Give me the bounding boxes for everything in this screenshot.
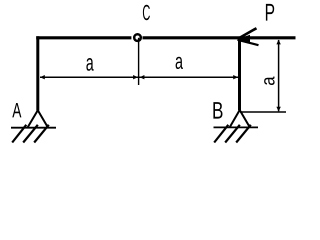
- force P arrowhead fill: [237, 35, 250, 44]
- support B hatch 2: [225, 125, 240, 143]
- support A hatch 2: [23, 125, 38, 143]
- support B hatch 1: [214, 125, 228, 143]
- dim arrow right of C extension: [140, 75, 145, 79]
- support B hatch 3: [236, 125, 251, 143]
- dim arrow up at beam: [276, 40, 280, 45]
- force P lower barb: [238, 40, 259, 45]
- node C label: [143, 5, 150, 20]
- support A ground line: [11, 127, 56, 129]
- dim arrow at right column: [233, 75, 238, 79]
- left column member: [36, 36, 39, 110]
- wire bottom extension line for vertical dimension: [240, 111, 286, 113]
- support A hatch 3: [34, 125, 49, 143]
- dim arrow left of C extension: [133, 75, 138, 79]
- dim label a right span: [176, 57, 183, 69]
- node B label: [213, 102, 222, 118]
- white gap in beam at hinge: [131, 35, 142, 40]
- dim label a vertical (rotated): [264, 76, 274, 85]
- support A hatch 1: [12, 125, 26, 143]
- beam top horizontal member: [36, 36, 295, 39]
- force P label: [266, 4, 274, 21]
- support B triangle: [230, 110, 251, 128]
- dim label a left span: [86, 58, 93, 71]
- force P upper barb: [238, 28, 257, 39]
- hinge C circle: [134, 34, 141, 41]
- support A triangle: [28, 110, 49, 127]
- right column member: [238, 37, 241, 110]
- wire extension line below hinge C: [138, 38, 140, 85]
- dimension line horizontal (both a spans): [40, 76, 238, 78]
- support B ground line: [214, 126, 259, 128]
- vertical dimension line right side: [278, 40, 280, 111]
- node A label: [12, 103, 21, 117]
- dim arrow at left column: [40, 75, 45, 79]
- dim arrow down at extension: [276, 107, 280, 112]
